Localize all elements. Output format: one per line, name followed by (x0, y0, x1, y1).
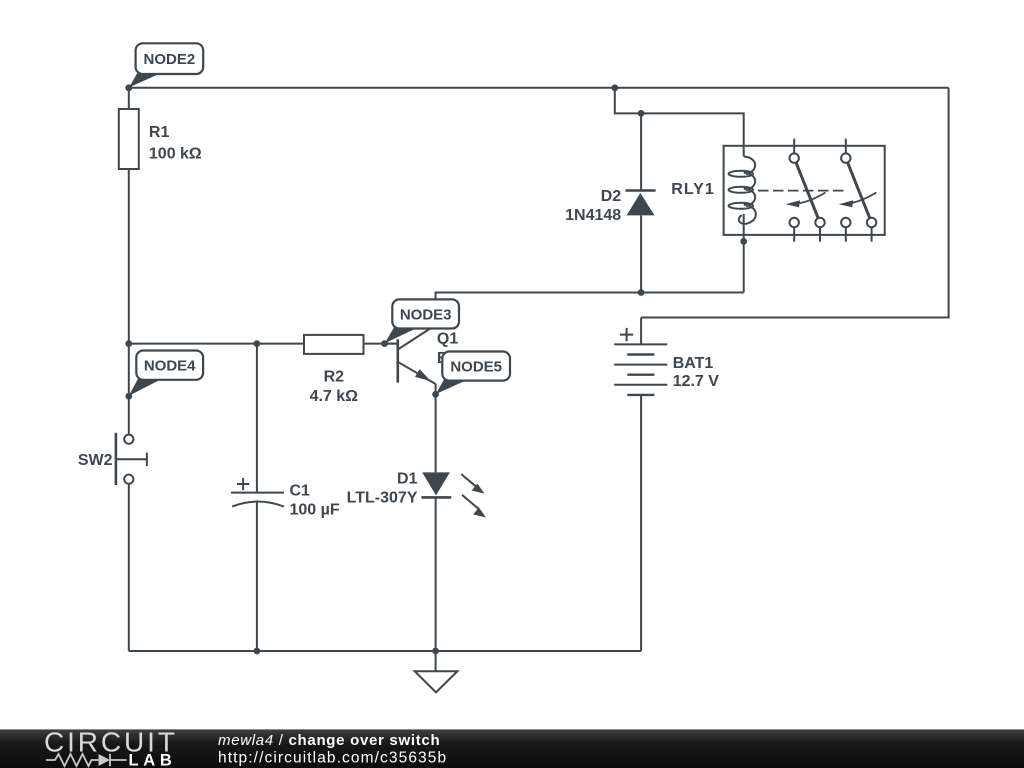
node dot NODE2 (125, 84, 132, 91)
svg-text:100 µF: 100 µF (290, 502, 340, 519)
svg-text:4.7 kΩ: 4.7 kΩ (310, 388, 359, 405)
relay arrow 2 (845, 193, 876, 204)
svg-text:LTL-307Y: LTL-307Y (347, 489, 418, 506)
wire R2 to Q1 base (364, 343, 398, 345)
wire left rail upper (128, 88, 130, 109)
relay dashed link (758, 190, 845, 192)
relay coil (744, 157, 755, 175)
battery BAT1 (614, 328, 667, 395)
wire bottom rail (129, 650, 641, 652)
wire Q1 collector up and across (436, 293, 744, 326)
node dot Q1 base (381, 340, 388, 347)
resistor R2 (304, 335, 364, 354)
svg-text:NODE5: NODE5 (450, 359, 502, 376)
wire D2 top (640, 113, 642, 190)
svg-text:mewla4 / change over switch: mewla4 / change over switch (218, 732, 440, 749)
wire LED to bottom rail (435, 497, 437, 651)
svg-text:NODE4: NODE4 (144, 358, 196, 375)
wire top-right drop (615, 88, 744, 157)
resistor R1 (119, 109, 139, 169)
svg-text:BAT1: BAT1 (673, 355, 714, 372)
wire SW2 bottom to ground rail (128, 484, 130, 651)
node label NODE3 (385, 299, 459, 343)
svg-text:100 kΩ: 100 kΩ (149, 145, 202, 162)
node label NODE4 (129, 351, 203, 396)
svg-text:NODE3: NODE3 (400, 307, 452, 324)
wire C1 top (256, 344, 258, 493)
svg-text:C1: C1 (290, 483, 311, 500)
node dot top-right tee (611, 84, 618, 91)
svg-text:12.7 V: 12.7 V (673, 373, 720, 390)
relay switch pole 2 (845, 139, 847, 154)
wire battery top (640, 318, 642, 345)
capacitor C1 (231, 478, 284, 507)
wire mid horizontal (129, 343, 304, 345)
wire Q1 emitter down to LED (435, 384, 437, 473)
svg-text:RLY1: RLY1 (671, 181, 714, 198)
svg-text:SW2: SW2 (78, 452, 113, 469)
node label NODE2 (129, 43, 203, 87)
node label NODE5 (436, 352, 510, 395)
svg-text:NODE2: NODE2 (144, 51, 196, 68)
wire right rail (641, 88, 949, 318)
node dot C1 bottom (254, 648, 261, 655)
ground (415, 651, 458, 692)
node dot D2 top (638, 110, 645, 117)
wire top rail (129, 87, 949, 89)
svg-text:R2: R2 (324, 368, 345, 385)
node dot D2 bottom (638, 289, 645, 296)
relay switch pole 1 (793, 139, 795, 154)
node dot coil bottom (740, 238, 747, 245)
node dot C1 tap (254, 340, 261, 347)
LED D1 (421, 472, 486, 517)
wire relay coil bottom (743, 214, 745, 293)
svg-text:D1: D1 (397, 470, 418, 487)
CircuitLab logo squiggle (46, 754, 127, 766)
svg-text:1N4148: 1N4148 (565, 207, 621, 224)
svg-text:D2: D2 (601, 188, 622, 205)
svg-text:LAB: LAB (129, 752, 177, 768)
footer bar (0, 727, 1024, 768)
relay arrow 1 (794, 193, 826, 204)
node dot ground tap (432, 648, 439, 655)
wire D2 bottom (640, 215, 642, 292)
svg-text:http://circuitlab.com/c35635b: http://circuitlab.com/c35635b (218, 750, 447, 767)
transistor Q1 (385, 325, 436, 384)
switch SW2 (116, 433, 147, 485)
wire R1 bottom to switch (128, 169, 130, 435)
wire C1 bottom (256, 503, 258, 652)
wire battery bottom (640, 395, 642, 651)
node dot NODE5 (432, 391, 439, 398)
relay RLY1 (724, 139, 885, 242)
diode D2 (626, 191, 656, 216)
svg-text:Q1: Q1 (437, 331, 458, 348)
svg-text:R1: R1 (149, 124, 170, 141)
node dot NODE4 (125, 393, 132, 400)
node dot mid-left tee (125, 340, 132, 347)
